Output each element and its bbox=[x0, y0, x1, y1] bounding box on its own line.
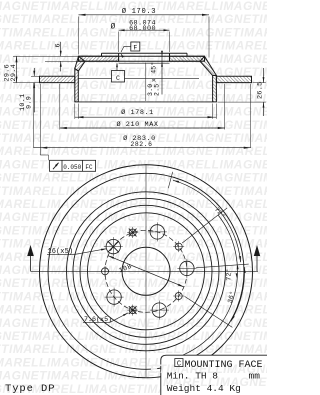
svg-text:7.6(x5): 7.6(x5) bbox=[84, 316, 112, 324]
svg-text:6: 6 bbox=[55, 43, 63, 47]
svg-text:0.050: 0.050 bbox=[63, 164, 81, 171]
svg-text:9.9: 9.9 bbox=[26, 96, 34, 109]
svg-text:MAGNETIMARELLIMAGNETIMARELLIMA: MAGNETIMARELLIMAGNETIMARELLIMAGNETIMAREL… bbox=[0, 210, 267, 224]
svg-text:282.6: 282.6 bbox=[130, 141, 152, 148]
svg-text:FC: FC bbox=[85, 164, 93, 171]
svg-text:Min. TH 8: Min. TH 8 bbox=[167, 371, 219, 382]
svg-text:MAGNETIMARELLIMAGNETIMARELLIMA: MAGNETIMARELLIMAGNETIMARELLIMAGNETIMAREL… bbox=[0, 223, 267, 237]
svg-text:Ø 210 MAX: Ø 210 MAX bbox=[116, 120, 158, 129]
svg-text:Ø: Ø bbox=[111, 22, 116, 31]
svg-text:Ø 178.1: Ø 178.1 bbox=[121, 108, 154, 117]
svg-text:2.5: 2.5 bbox=[154, 84, 161, 96]
svg-text:Ø 170.3: Ø 170.3 bbox=[122, 7, 156, 16]
svg-text:mm: mm bbox=[249, 371, 261, 382]
svg-text:MAGNETIMARELLIMAGNETIMARELLIMA: MAGNETIMARELLIMAGNETIMARELLIMAGNETIMAREL… bbox=[0, 342, 267, 356]
svg-text:C: C bbox=[116, 75, 120, 82]
svg-text:MAGNETIMARELLIMAGNETIMARELLIMA: MAGNETIMARELLIMAGNETIMARELLIMAGNETIMAREL… bbox=[0, 237, 267, 251]
svg-text:Type DP: Type DP bbox=[5, 383, 55, 395]
svg-text:MAGNETIMARELLIMAGNETIMARELLIMA: MAGNETIMARELLIMAGNETIMARELLIMAGNETIMAREL… bbox=[0, 316, 267, 330]
svg-text:MAGNETIMARELLIMAGNETIMARELLIMA: MAGNETIMARELLIMAGNETIMARELLIMAGNETIMAREL… bbox=[0, 184, 267, 198]
svg-text:72°: 72° bbox=[225, 268, 233, 280]
svg-text:29.4: 29.4 bbox=[10, 64, 18, 82]
svg-text:26.5: 26.5 bbox=[257, 81, 265, 99]
svg-text:F: F bbox=[133, 44, 137, 51]
svg-text:MAGNETIMARELLIMAGNETIMARELLIMA: MAGNETIMARELLIMAGNETIMARELLIMAGNETIMAREL… bbox=[0, 171, 267, 185]
svg-text:68.000: 68.000 bbox=[129, 25, 156, 33]
svg-text:Weight 4.4 Kg: Weight 4.4 Kg bbox=[167, 383, 241, 394]
svg-text:MAGNETIMARELLIMAGNETIMARELLIMA: MAGNETIMARELLIMAGNETIMARELLIMAGNETIMAREL… bbox=[0, 52, 267, 66]
svg-text:C: C bbox=[177, 360, 181, 368]
svg-text:MAGNETIMARELLIMAGNETIMARELLIMA: MAGNETIMARELLIMAGNETIMARELLIMAGNETIMAREL… bbox=[0, 157, 267, 171]
svg-text:MOUNTING FACE: MOUNTING FACE bbox=[185, 360, 263, 371]
